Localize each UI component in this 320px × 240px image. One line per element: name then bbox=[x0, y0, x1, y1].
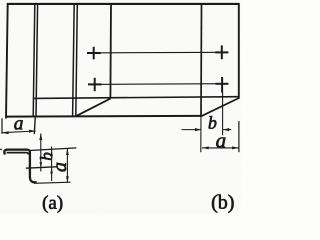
hem profile outer layer bbox=[4, 150, 36, 183]
left edge of panel bbox=[6, 3, 8, 118]
dim b second line: arrow under middle reference bbox=[50, 168, 53, 174]
rivet cross right upper bbox=[215, 45, 228, 59]
dim b right: arrow right bbox=[223, 128, 230, 131]
profile extension line top bbox=[30, 148, 77, 151]
second fold line pair, first line bbox=[73, 4, 75, 117]
caption (a) bbox=[43, 196, 62, 213]
left fold line pair, second line bbox=[36, 4, 38, 117]
left fold line pair, first line bbox=[33, 4, 35, 117]
dim b right: arrow left bbox=[195, 128, 202, 131]
rivet cross left lower bbox=[88, 78, 102, 91]
dim b vertical second line bbox=[51, 147, 53, 182]
dim b vertical: arrow bottom bbox=[40, 162, 43, 167]
rivet centre line lower bbox=[88, 83, 228, 86]
label a (left horizontal dim) bbox=[14, 120, 22, 129]
dim b second line: arrow under top reference bbox=[50, 150, 53, 156]
second fold line pair, second line bbox=[76, 4, 78, 117]
dim b vertical: arrow top bbox=[39, 133, 42, 140]
label a (left vertical dim) bbox=[56, 163, 66, 172]
dim a vertical: arrow bottom bbox=[66, 176, 69, 182]
top edge of panel bbox=[7, 3, 240, 5]
right fold extension line bbox=[200, 116, 202, 152]
profile extension line middle bbox=[26, 167, 58, 169]
dim a vertical: arrow top bbox=[66, 148, 69, 155]
scan artifact marks on left margin bbox=[0, 148, 2, 150]
bottom edge of panel bbox=[6, 115, 203, 118]
profile extension line bottom bbox=[34, 182, 71, 183]
inner horizontal edge bbox=[33, 97, 239, 99]
right edge of panel bbox=[238, 3, 240, 98]
hem profile inner layer bbox=[7, 153, 29, 155]
dim a right: arrow left bbox=[202, 146, 209, 149]
dim a right: arrow right bbox=[232, 146, 239, 149]
dim b vertical line bbox=[40, 133, 42, 171]
right edge extension line bbox=[238, 121, 240, 152]
dim b right: dimension line right part bbox=[223, 129, 232, 131]
label b (right dim) bbox=[209, 116, 217, 129]
dim a left: dimension line bbox=[2, 131, 36, 133]
rivet centre line upper bbox=[87, 51, 228, 54]
dim a left: extension line right bbox=[34, 116, 35, 134]
rivet extension line right bbox=[222, 93, 224, 136]
dim a left: extension line left bbox=[1, 118, 3, 134]
dim a vertical line bbox=[66, 148, 68, 182]
centre seam line bbox=[109, 4, 112, 99]
dim a right: dimension line bbox=[202, 147, 239, 149]
label a (right dim) bbox=[216, 137, 225, 147]
rivet cross right lower bbox=[216, 77, 229, 93]
dim b right: dimension line left part bbox=[182, 129, 202, 131]
rivet cross left upper bbox=[87, 47, 101, 60]
label b (left vertical dim) bbox=[40, 153, 52, 160]
left chamfer diagonal bbox=[76, 99, 111, 117]
dim a left: arrow right bbox=[29, 130, 36, 133]
caption (b) bbox=[212, 195, 234, 213]
right chamfer diagonal bbox=[202, 98, 239, 116]
right fold line bbox=[200, 4, 203, 117]
dim a left: arrow left bbox=[2, 131, 9, 134]
